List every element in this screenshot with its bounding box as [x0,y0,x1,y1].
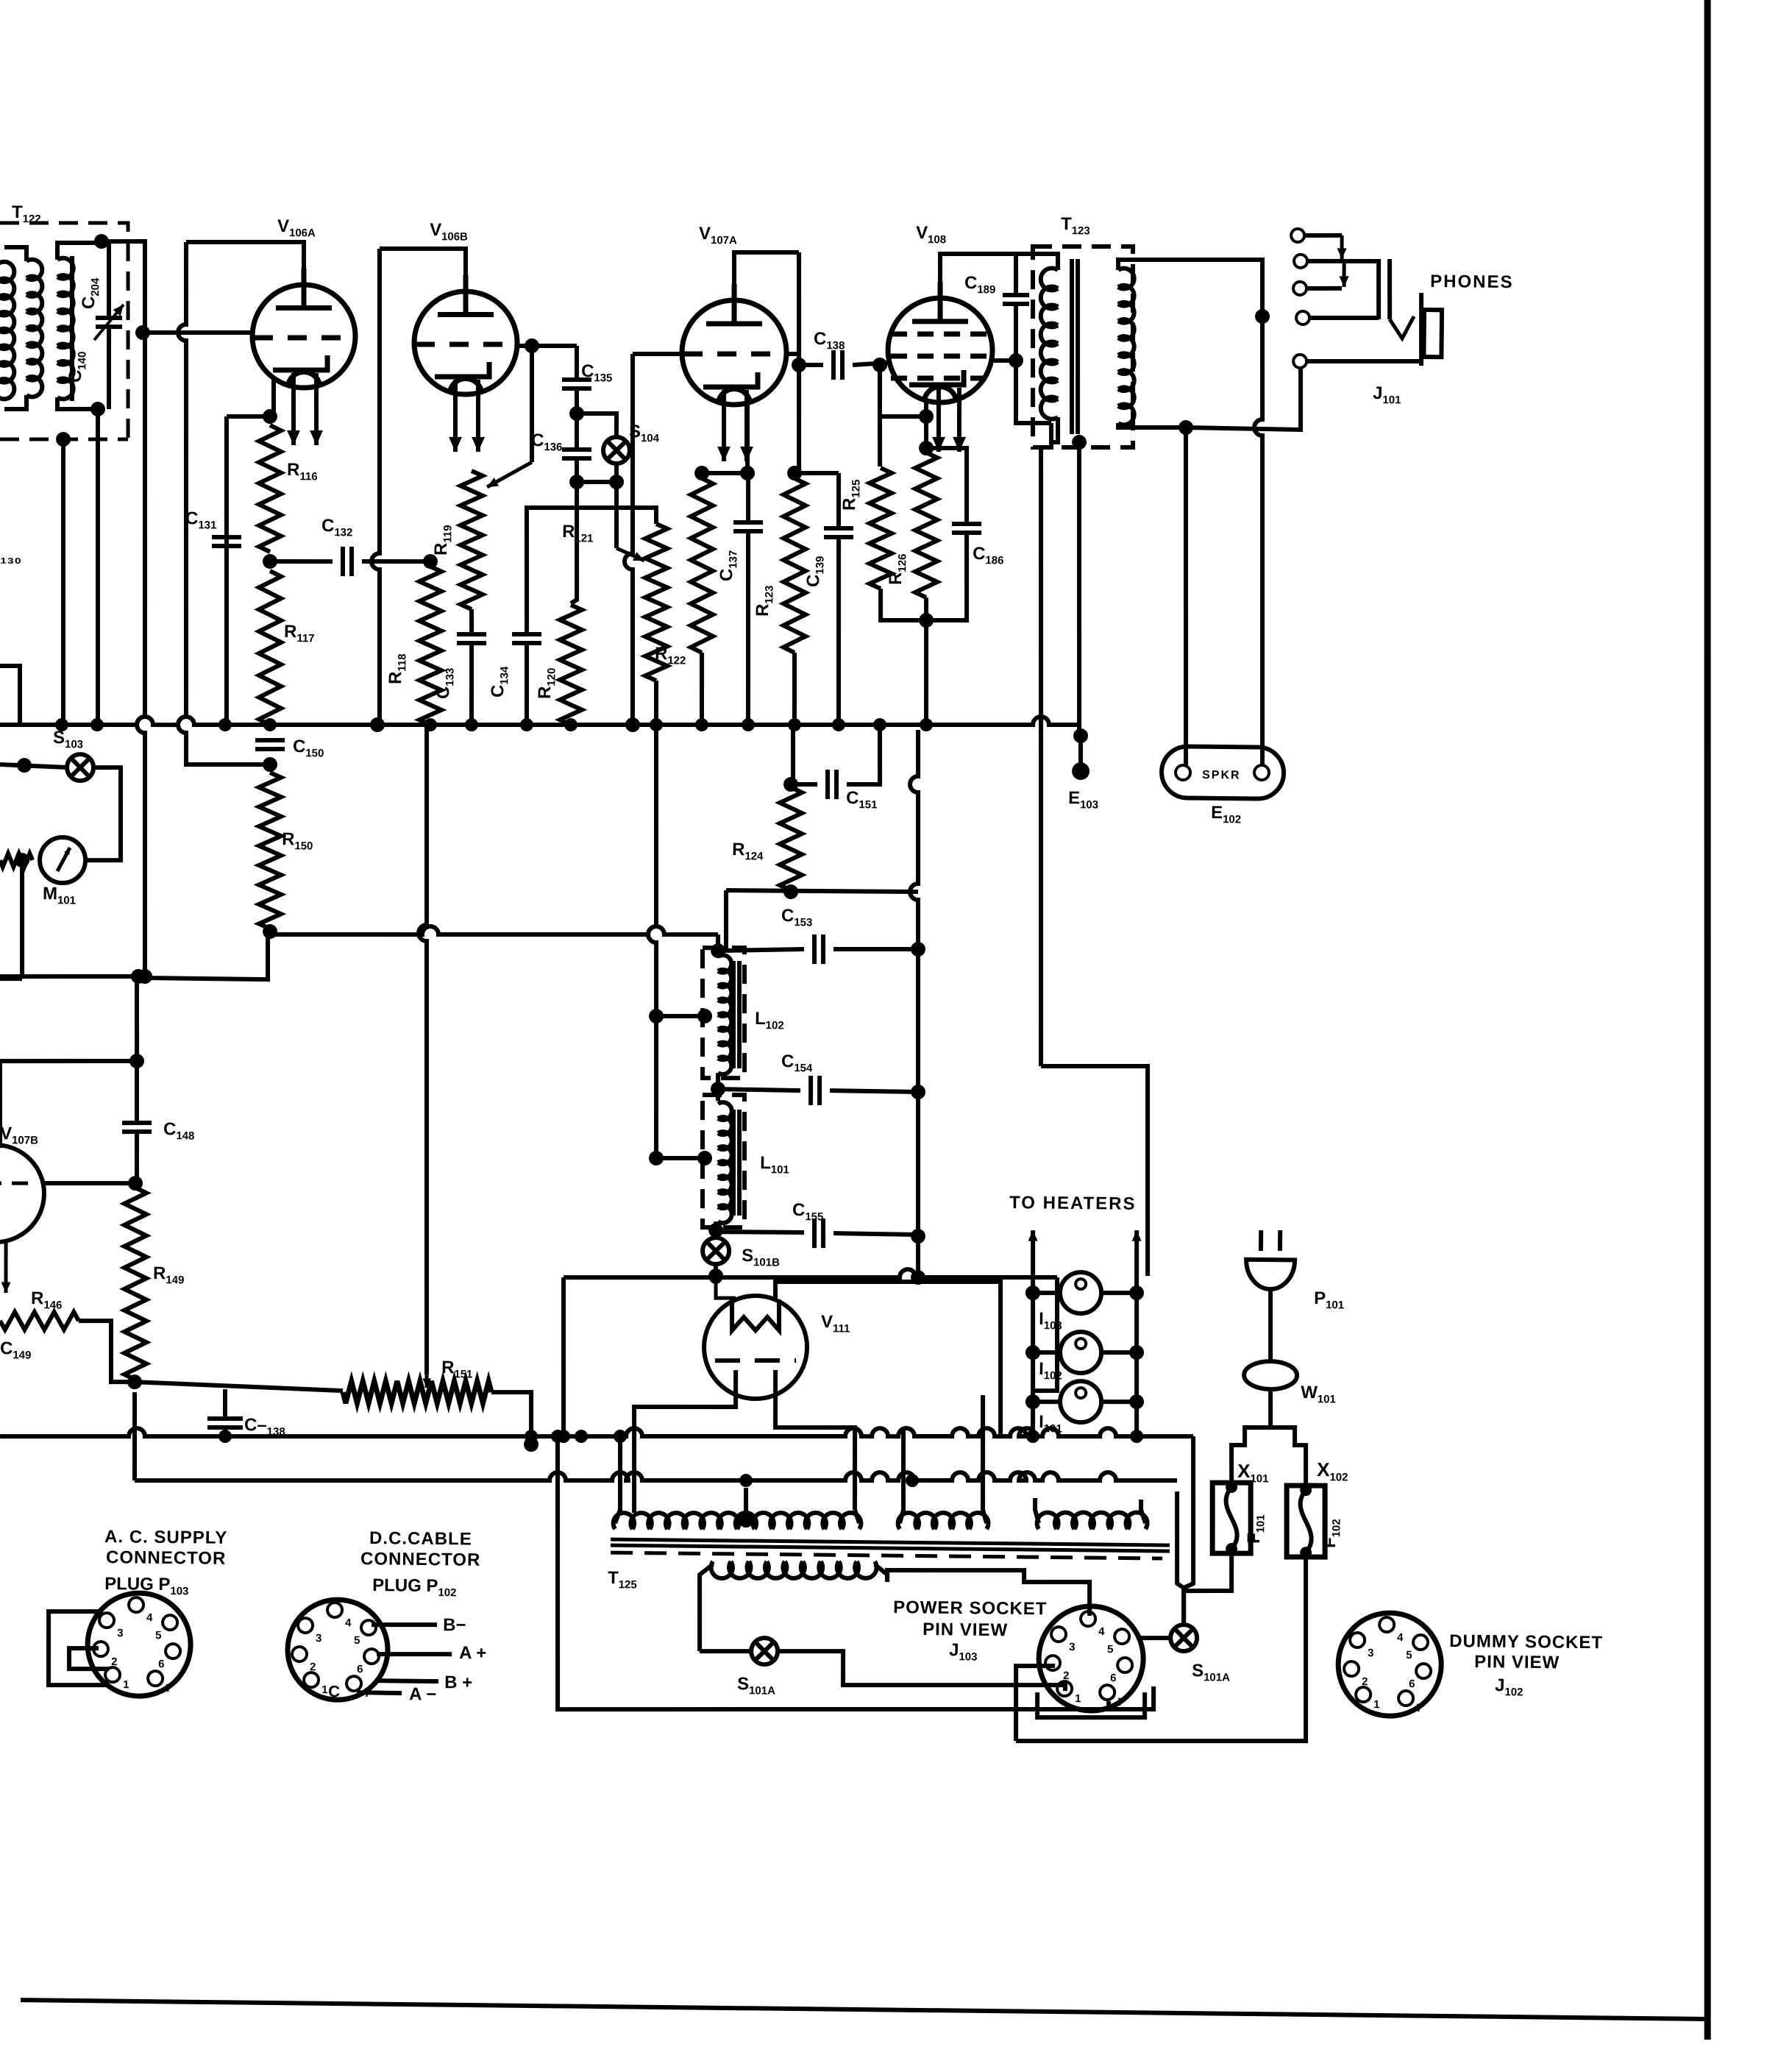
wire R126 bottom stub [924,597,929,620]
tube V106A plate wire [185,241,304,296]
svg-text:PHONES: PHONES [1430,272,1514,292]
wire C137 bottom [746,531,750,725]
jack J101 tip contact [1390,316,1414,339]
wire E102 right drop [1251,318,1267,765]
wire S101B bottom [714,1264,718,1277]
wire H1 right drop [1033,1277,1059,1391]
node C148 top [131,969,146,984]
terminal E103 lead [1078,736,1084,765]
wire R146 to R149 bottom [78,1321,135,1383]
node R116-R117 junction [263,554,277,569]
wire C148 bottom [136,1132,137,1179]
wire H1 left drop [562,1277,566,1436]
wire C139 top [838,473,839,528]
wire tray C [1037,1692,1145,1719]
node L102 tie left [649,1009,664,1023]
svg-text:5: 5 [155,1629,162,1642]
node below C136 [569,475,584,489]
jack J101 switch arrow b [1342,263,1346,287]
wire grid line down [134,335,152,976]
node lamp I102 left [1025,1345,1040,1360]
inductor L102 shield box [701,947,746,1078]
resistor (cut) meter lead [0,854,32,868]
svg-text:DUMMY SOCKET: DUMMY SOCKET [1449,1631,1603,1653]
transformer T125 primary a left lead [615,1438,621,1523]
svg-text:6: 6 [1409,1678,1415,1690]
jack J101 plug body line [1420,293,1422,366]
tube V108 heater lead [938,388,939,452]
wire L102 feed drop [716,934,721,954]
tube V111 anode plates [732,1299,780,1330]
lamp I101 [1060,1381,1102,1423]
wire P102 pin7 out [357,1692,402,1693]
tube V107B grid lead [41,1182,135,1185]
inductor L101 core [733,1110,735,1216]
capacitor C136 [562,450,591,459]
wire J101 t3 [1306,288,1342,288]
node R122 top [694,466,709,480]
transformer T122 winding b top lead [57,242,98,260]
svg-text:SPKR: SPKR [1202,769,1241,782]
transformer T125 core c [611,1553,1162,1558]
capacitor C204 [96,318,122,327]
node I103 left [1025,1285,1040,1300]
jack J101 sleeve bar b [1389,259,1390,319]
wire cathode tie [702,472,747,473]
wire L1 right drop [1184,1436,1195,1625]
node I101 right [1129,1394,1144,1409]
node C189 drop [1009,353,1023,368]
wire P102 pin6 out [375,1681,438,1681]
node R123 top [787,466,802,480]
wire R118 long drop [414,727,434,1374]
resistor R126 [914,453,939,597]
wire cord lower [1270,1389,1271,1427]
node R125 tie [919,409,934,424]
svg-text:B−: B− [443,1615,466,1635]
svg-text:A. C. SUPPLY: A. C. SUPPLY [104,1527,227,1548]
wire S104 to R121 wiper [576,481,617,548]
wire C139 bottom [836,537,840,725]
tube V108 screen lead [992,358,1016,363]
node lamp I103 left [1025,1285,1040,1300]
node combo bottom [919,613,934,628]
inductor L102 coil [716,955,733,1074]
svg-text:3: 3 [1368,1647,1374,1659]
node C154 right [911,1085,925,1099]
wire C136 node to R120 [571,482,578,603]
node riser H1 [911,1270,925,1285]
wire E102 left drop [1182,430,1190,765]
capacitor C134 [512,634,541,644]
wire heater riser left [1031,1230,1035,1436]
tube V108 cathode lead [924,401,928,416]
lamp I103 [1060,1272,1102,1314]
wire P101 cord [1270,1289,1271,1362]
wire F102 bottom [1016,1554,1308,1744]
lamp I102 [1060,1332,1102,1374]
meter M101 [40,837,86,884]
wire I102 rung b [1101,1352,1137,1353]
wire C153 right [833,948,918,950]
transformer T123 primary top lead [1045,254,1059,270]
speaker terminal strip E102 [1162,746,1284,799]
capacitor C139 [824,528,853,538]
tube V106A heater lead [293,373,294,445]
lamp S101B [703,1238,729,1264]
node T122 dashed-bottom tap [56,432,71,447]
transformer T125 primary b [898,1512,989,1530]
wire supply line L2 [135,1462,1177,1491]
wire C186 bottom [926,532,967,620]
svg-text:4: 4 [1397,1631,1404,1644]
wire V107A plate drop [797,252,801,473]
transformer T125 primary c [1037,1511,1148,1530]
tube V107B [0,1144,45,1242]
capacitor C154 [811,1076,820,1105]
tube V106B [413,274,518,394]
wire AVC return [145,930,269,979]
wire AC loop left [555,1440,1156,1716]
wire H1 bus [563,1266,1057,1282]
connector plug P102 [287,1599,388,1700]
wire T123 box drop [1034,447,1048,1066]
transformer T125 primary b leads [900,1430,904,1523]
wire C137 top [747,473,748,522]
inductor L101 core b [739,1110,741,1216]
wire C132 to R118 [362,561,430,562]
transformer T125 primary b right lead [981,1395,988,1523]
wire R124 row left drop [725,890,727,949]
capacitor C153 [814,934,824,964]
wire R124 bottom row [726,890,918,892]
node C148 bottom [129,1054,144,1068]
svg-text:TO HEATERS: TO HEATERS [1009,1193,1137,1214]
node S103 left [17,758,32,773]
resistor R124 [779,787,803,890]
transformer T122 winding a [25,260,43,397]
transformer T123 secondary bottom lead [1118,423,1186,428]
tube V111 filament dash [715,1360,796,1361]
wire J103 pin4 up [887,1569,1090,1616]
tube V107A grid output [786,352,799,356]
resistor R116 [257,425,282,552]
capacitor C148 [122,1123,152,1132]
transformer T125 secondary right lead [875,1564,888,1582]
jack J101 switch arrow a [1340,235,1344,259]
wire tray B [1015,1665,1055,1741]
transformer T123 secondary top lead [1117,258,1263,318]
node V107B grid [128,1176,143,1191]
wire S101A row [700,1650,752,1651]
wire C154 right [830,1090,918,1092]
wire R149 bottom row [135,1382,343,1391]
wire T125 center tap [744,1488,749,1520]
capacitor C189 top stub [1015,254,1016,294]
node S104 tap [569,406,584,421]
transformer T122 winding a top lead [4,247,26,261]
lamp S101A [751,1638,778,1664]
connector P103 inner strap [69,1648,110,1670]
svg-text:1: 1 [123,1678,129,1691]
wire R123 bottom [794,653,795,725]
wire R126 top stub [926,416,927,453]
lamp S104 [603,437,630,464]
node R116 top [263,409,277,424]
node V106B plate bus [370,717,385,732]
svg-text:3: 3 [117,1627,124,1639]
terminal E102 left pin [1176,765,1190,780]
wire C133 bottom [471,643,472,725]
wire primary bottom drop [1041,423,1051,447]
connector plug P103 [87,1592,191,1696]
wire R125 lead [879,416,881,466]
wire S104 bottom [614,463,619,482]
resistor R150 [257,773,282,929]
svg-text:PIN VIEW: PIN VIEW [922,1619,1008,1640]
wire heater riser right [1134,1230,1139,1442]
node T125 center tap [739,1513,753,1528]
inductor L101 coil [716,1102,733,1223]
wire R119 to C133 [469,609,474,634]
tube V107A [681,283,787,405]
wire R116 top tie to C131 [227,416,270,416]
transformer T123 shield box [1031,246,1135,449]
transformer T125 secondary left lead [699,1564,713,1651]
node R124 bottom [783,884,798,899]
wire L2 left drop [134,1392,135,1480]
wire left edge stub [0,666,21,725]
node R118 top [423,554,438,569]
wire C155 right [833,1233,918,1235]
tube V106B plate wire [379,248,466,302]
tube V107A heater lead [746,390,747,461]
node L102 top [711,943,725,958]
node L102 tie [697,1009,712,1023]
node C154 left [711,1082,725,1096]
wire node to C139 [794,472,839,473]
tube V108 [887,281,993,402]
node C150 bottom [263,757,277,772]
transformer T125 primary c right lead [1141,1500,1146,1523]
tube V106A [252,268,356,388]
svg-text:6: 6 [357,1663,363,1675]
jack J101 plug body [1423,310,1442,357]
wire T123 drop L [1039,1065,1150,1276]
node V107A grid bus [625,717,640,732]
node S104 bottom [609,475,624,489]
svg-text:3: 3 [1069,1641,1075,1653]
wire I103 rung [1033,1291,1060,1296]
node S101B bus [708,1269,723,1283]
tube V106B grid lead right [519,345,577,347]
svg-text:5: 5 [354,1634,360,1647]
wire R151 right [491,1392,531,1444]
svg-text:POWER SOCKET: POWER SOCKET [893,1597,1048,1619]
wire R150 bottom to L102 [270,923,718,940]
resistor R122 [689,478,714,653]
tube V106A heater lead [316,373,317,445]
transformer T122 core line [71,256,74,401]
wire C204 top [108,243,110,318]
wire J101 t5 [1306,360,1420,362]
tube V106A cathode lead [273,380,274,416]
node C153 right [911,942,925,957]
node R150 bottom [263,924,277,939]
svg-text:₁₃₀: ₁₃₀ [0,548,21,567]
svg-text:6: 6 [1110,1672,1117,1684]
wire R116/R117 to C132 [270,561,333,562]
wire right riser [905,730,924,1277]
transformer T123 primary bottom lead [1051,417,1058,442]
node I103 right [1129,1285,1144,1300]
svg-text:4: 4 [1098,1625,1105,1638]
fuse F102 [1286,1486,1326,1558]
tube V107A cathode lead [747,401,748,473]
node V107A cathode [740,466,755,480]
wire C136 bottom [575,458,580,482]
wire F101 bottom [1184,1553,1232,1625]
wire C138 node drop [879,365,880,416]
transformer T125 secondary [711,1560,876,1580]
wire T122 top to grid line [101,241,146,331]
node V106A grid [135,325,150,340]
connector P103 outer strap [48,1611,110,1686]
wire supply line L1 [0,1416,1193,1449]
capacitor C138 [833,350,843,380]
resistor R151 [343,1380,491,1405]
jack J101 terminal 4 [1296,311,1309,324]
tube V106B heater lead [455,380,456,452]
node lamp I101 left [1025,1394,1040,1409]
svg-text:1: 1 [1075,1692,1081,1705]
wire L101 tie [656,1157,705,1158]
resistor R125 [869,468,893,589]
inductor L102 core [733,961,735,1068]
node L101 tie [697,1151,712,1165]
transformer T125 core b [611,1545,1170,1551]
transformer T125 primary c left lead [1035,1498,1039,1523]
potentiometer R119 wiper arrow [487,461,532,487]
capacitor C186 [952,524,981,533]
wire output to C138 [799,363,823,368]
wire cord split right [1270,1427,1306,1486]
wire R122 bottom [701,653,703,725]
wire V111 top feed [716,1276,736,1298]
resistor R117 [257,571,282,725]
tube V106B heater lead [477,380,479,452]
resistor R149 [123,1188,149,1380]
resistor R121 [644,524,669,681]
border bottom edge [21,2000,1707,2019]
wire J103 pin7 drop [1106,1701,1111,1709]
tube V107B grid dash [0,1182,38,1183]
wire I102 rung [1033,1350,1060,1355]
wire J101 t1 [1304,235,1342,235]
wire plate node to R123 [794,471,799,475]
capacitor C-138 [207,1419,243,1428]
node R149 bottom [127,1374,142,1389]
wire R121 long drop [646,725,661,1158]
node C155 right [911,1229,925,1243]
wire grid to R119 wiper [530,346,533,462]
wire T122 tap drop [60,439,66,725]
capacitor C133 [457,634,486,644]
wire C153 row [718,948,804,952]
node R126 top [919,441,934,455]
wire L101 bottom [714,1221,719,1238]
wire C148 line [136,976,138,1057]
wire secondary bottom to jack [1186,365,1301,430]
node J101 tip feed [1255,309,1270,324]
node V107A output [792,358,806,372]
transformer T123 core line b [1076,259,1080,434]
transformer T125 primary a right lead [855,1510,859,1523]
wire I101 rung b [1101,1402,1137,1402]
socket J102 [1337,1612,1441,1716]
wire L102 tie [656,1015,705,1016]
wire V107B plate row [0,1060,137,1062]
wire J103 pin5 to S101A [1137,1636,1171,1641]
wire I103 rung b [1101,1293,1137,1294]
tube V111 lead right [774,1370,856,1510]
node meter left [15,853,29,868]
wire meter bottom line [0,976,22,982]
svg-text:1: 1 [321,1683,328,1696]
wire V106B plate drop [370,249,385,725]
capacitor C189 bottom lead [1014,304,1052,424]
node R151 bus [524,1437,538,1452]
jack J101 terminal 5 [1293,355,1306,368]
svg-text:D.C.CABLE: D.C.CABLE [369,1528,472,1549]
capacitor C137 [733,522,763,532]
node R124 top [783,777,798,792]
svg-text:1: 1 [1373,1698,1380,1711]
node I102 right [1129,1345,1144,1360]
capacitor C189 [1003,295,1029,305]
wire P102 pin4 out [371,1624,437,1625]
wire J101 t4 [1309,317,1379,319]
wire combo bottom drop [925,620,928,725]
wire C148 to grid node [136,1065,138,1123]
wire T122 bottom drop [94,409,101,725]
svg-text:PIN VIEW: PIN VIEW [1474,1652,1560,1672]
wire V111 anode right feed [774,1280,1002,1435]
tube V107A heater lead [723,390,725,461]
wire C138 to V108 grid [853,362,888,365]
jack J101 terminal 1 [1291,229,1304,242]
meter M101 needle [57,848,70,871]
wire R124 top stub [792,730,794,784]
node T122 top [94,234,109,249]
wire R125 bottom [881,589,927,621]
svg-text:4: 4 [146,1611,153,1624]
resistor R119 [459,471,484,609]
transformer T122 shield box [0,221,130,439]
svg-text:7: 7 [1416,1702,1423,1714]
wire S103 to meter loop [85,767,121,861]
transformer T122 shield box bottom [0,438,128,441]
wire meter left drop [21,860,23,979]
transformer T122 winding b bottom lead [57,397,98,410]
node C155 left [708,1223,723,1238]
terminal E103 [1072,762,1089,780]
wire R151 wiper arrow [424,1374,428,1388]
capacitor C155 [814,1218,824,1248]
wire C151 row [791,782,817,787]
jack J101 terminal 2 [1294,255,1307,268]
svg-text:C: C [328,1682,340,1700]
